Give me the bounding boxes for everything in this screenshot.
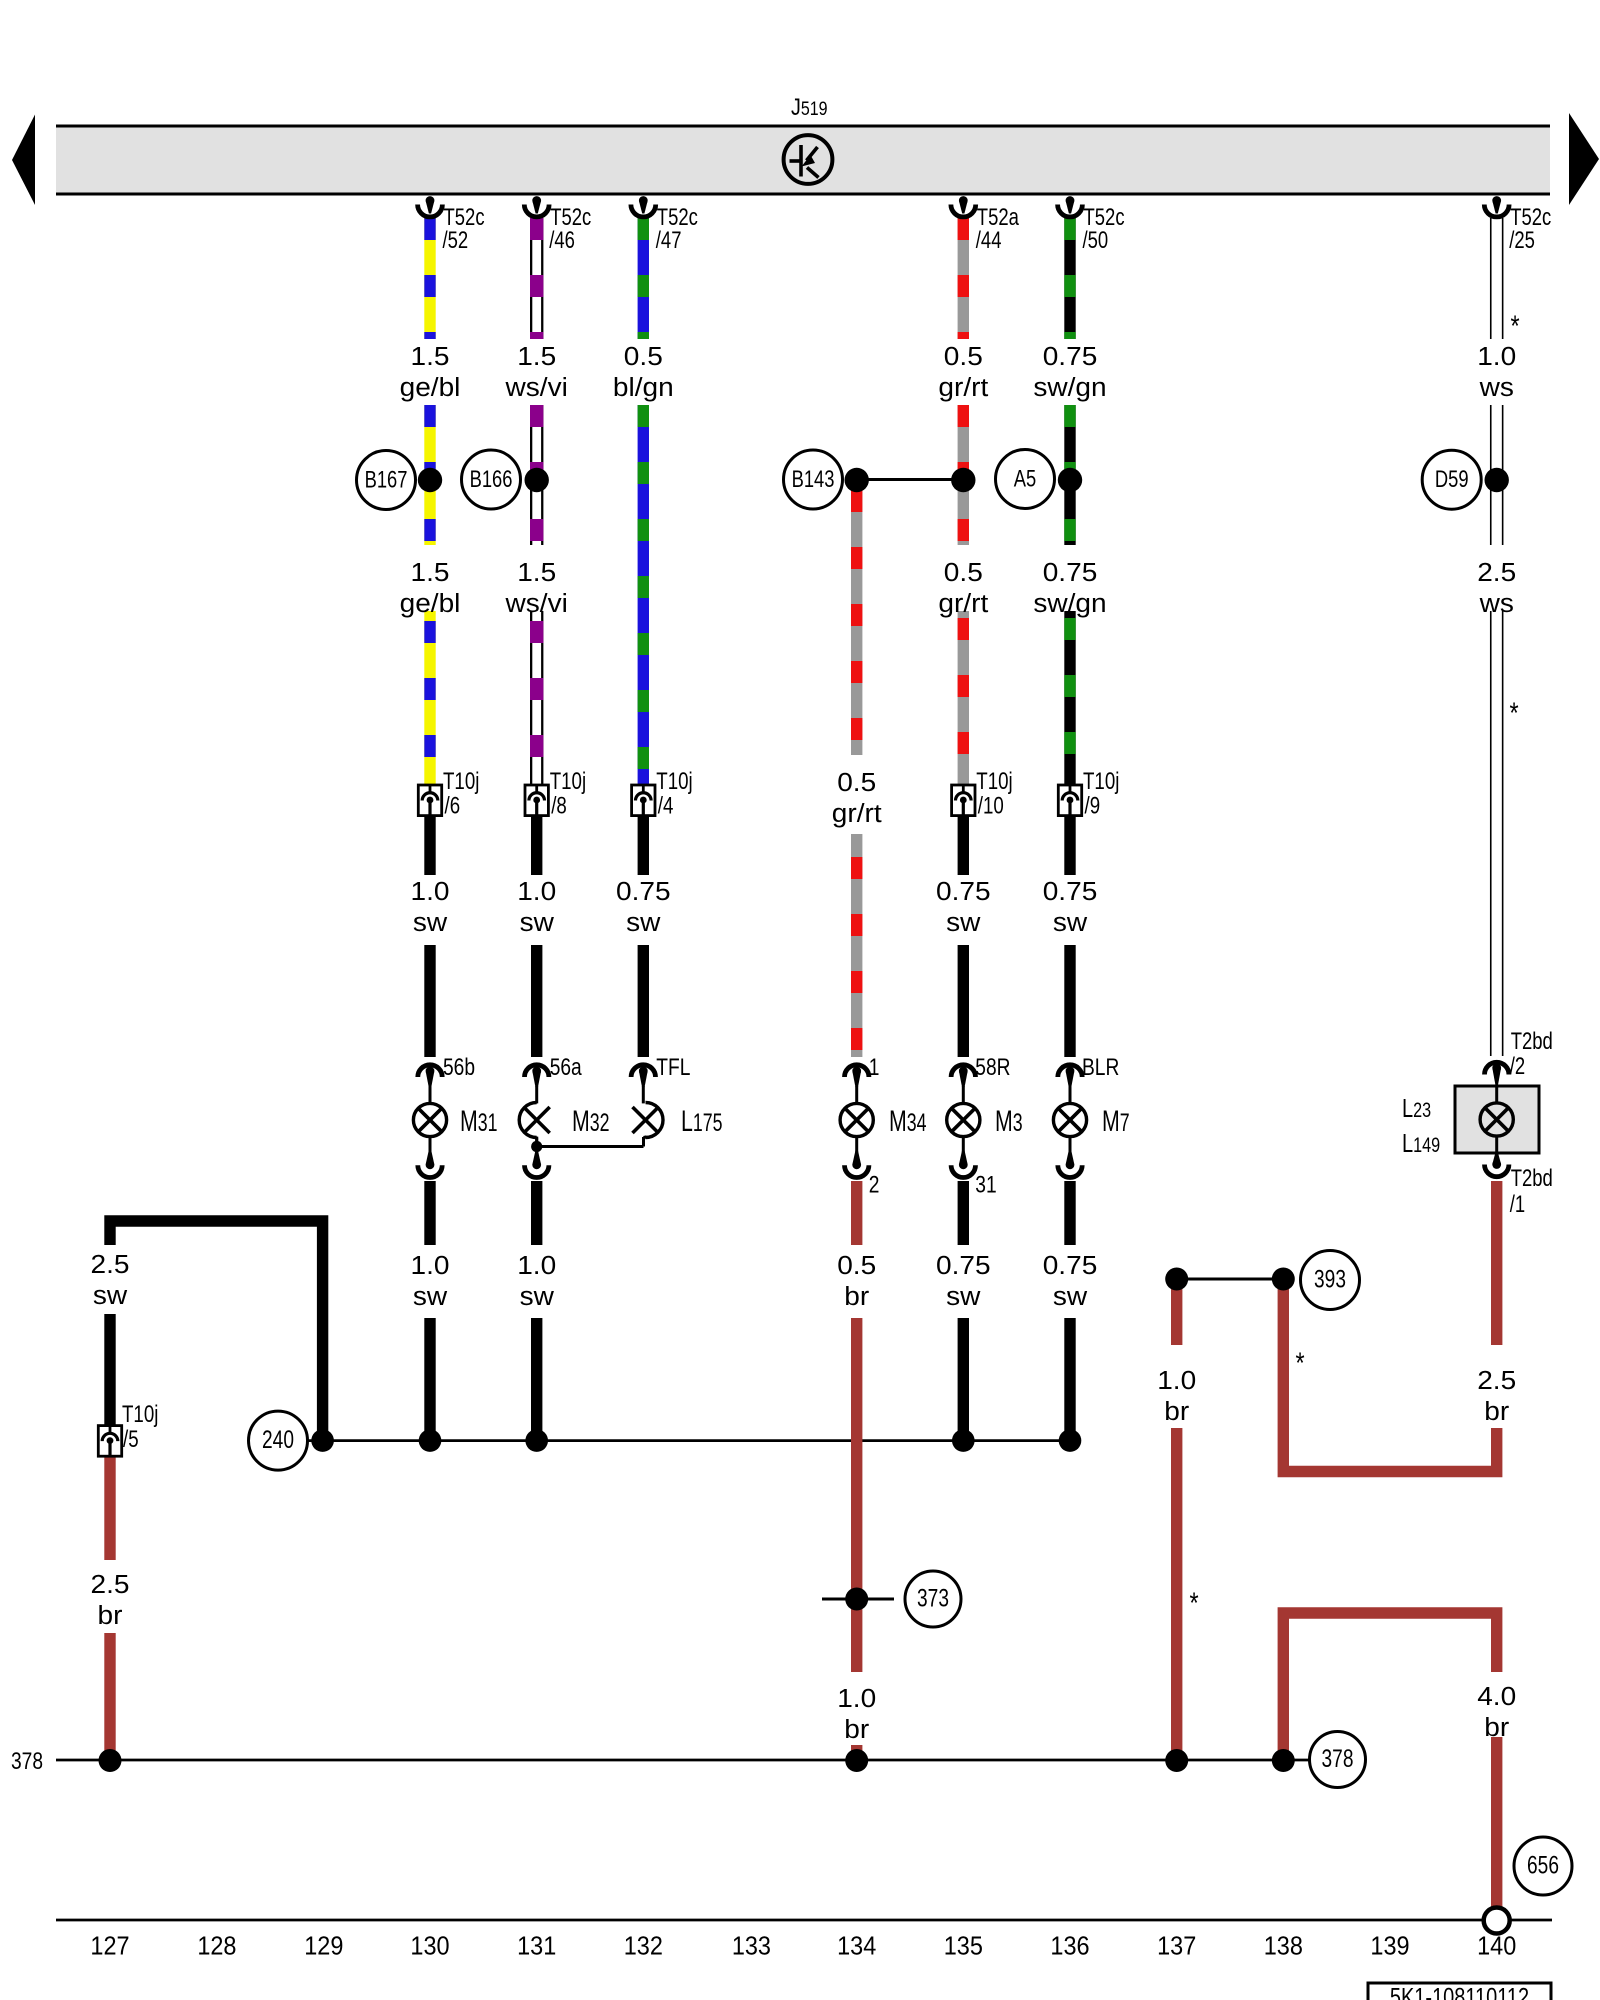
svg-text:sw: sw: [1053, 1282, 1088, 1311]
svg-text:M31: M31: [460, 1103, 497, 1138]
svg-text:/2: /2: [1510, 1053, 1525, 1080]
svg-text:sw: sw: [413, 1282, 448, 1311]
svg-text:138: 138: [1264, 1933, 1303, 1961]
svg-text:/25: /25: [1509, 227, 1535, 254]
svg-text:br: br: [844, 1715, 869, 1744]
svg-text:sw: sw: [520, 1282, 555, 1311]
svg-text:0.75: 0.75: [1043, 558, 1098, 587]
svg-text:2.5: 2.5: [1477, 558, 1516, 587]
svg-text:/10: /10: [978, 792, 1004, 819]
svg-text:M34: M34: [889, 1103, 926, 1138]
svg-text:*: *: [1510, 309, 1520, 342]
svg-text:T10j: T10j: [1083, 768, 1119, 795]
svg-text:4.0: 4.0: [1477, 1682, 1516, 1711]
svg-text:/5: /5: [123, 1426, 139, 1453]
svg-text:sw: sw: [93, 1281, 128, 1310]
svg-text:L149: L149: [1402, 1128, 1440, 1157]
svg-text:gr/rt: gr/rt: [832, 799, 882, 828]
svg-text:sw: sw: [946, 908, 981, 937]
svg-text:T10j: T10j: [122, 1401, 158, 1428]
svg-text:M7: M7: [1102, 1103, 1130, 1138]
svg-text:sw: sw: [413, 908, 448, 937]
svg-text:T2bd: T2bd: [1511, 1165, 1553, 1192]
svg-text:sw: sw: [1053, 908, 1088, 937]
svg-text:T10j: T10j: [443, 768, 479, 795]
svg-text:/50: /50: [1083, 227, 1109, 254]
svg-text:134: 134: [837, 1933, 876, 1961]
svg-text:1.0: 1.0: [517, 877, 556, 906]
svg-text:/9: /9: [1085, 792, 1101, 819]
svg-text:1.5: 1.5: [411, 558, 450, 587]
svg-text:br: br: [98, 1601, 123, 1630]
svg-text:A5: A5: [1014, 465, 1036, 492]
svg-text:M3: M3: [995, 1103, 1023, 1138]
svg-text:373: 373: [917, 1584, 949, 1612]
svg-text:sw: sw: [626, 908, 661, 937]
svg-text:1.0: 1.0: [411, 877, 450, 906]
svg-text:gr/rt: gr/rt: [938, 589, 988, 618]
svg-text:T10j: T10j: [550, 768, 586, 795]
svg-text:2.5: 2.5: [1477, 1366, 1516, 1395]
svg-text:378: 378: [1322, 1745, 1354, 1773]
svg-text:TFL: TFL: [656, 1053, 690, 1081]
svg-text:0.5: 0.5: [624, 342, 663, 371]
svg-text:0.5: 0.5: [944, 342, 983, 371]
svg-text:140: 140: [1477, 1933, 1516, 1961]
svg-text:1.5: 1.5: [517, 342, 556, 371]
svg-text:131: 131: [517, 1933, 556, 1961]
svg-text:393: 393: [1314, 1265, 1346, 1293]
svg-text:ws: ws: [1479, 373, 1514, 402]
svg-text:656: 656: [1527, 1851, 1559, 1879]
svg-text:br: br: [1484, 1713, 1509, 1742]
svg-text:0.5: 0.5: [837, 1251, 876, 1280]
svg-text:BLR: BLR: [1082, 1053, 1119, 1081]
svg-text:127: 127: [90, 1933, 129, 1961]
svg-text:31: 31: [975, 1170, 996, 1198]
svg-text:128: 128: [197, 1933, 236, 1961]
svg-text:/46: /46: [549, 227, 575, 254]
svg-text:B143: B143: [792, 466, 835, 493]
svg-text:5K1-108110112: 5K1-108110112: [1390, 1983, 1529, 2000]
svg-text:gr/rt: gr/rt: [938, 373, 988, 402]
svg-text:2: 2: [869, 1170, 880, 1198]
svg-text:0.5: 0.5: [837, 768, 876, 797]
svg-text:133: 133: [732, 1933, 771, 1961]
svg-text:/8: /8: [551, 792, 567, 819]
svg-text:58R: 58R: [975, 1053, 1010, 1081]
svg-text:137: 137: [1157, 1933, 1196, 1961]
svg-text:/4: /4: [658, 792, 674, 819]
svg-text:1.5: 1.5: [411, 342, 450, 371]
svg-text:/47: /47: [656, 227, 682, 254]
svg-text:1.0: 1.0: [837, 1684, 876, 1713]
svg-text:ge/bl: ge/bl: [400, 373, 461, 402]
svg-text:0.5: 0.5: [944, 558, 983, 587]
svg-text:0.75: 0.75: [1043, 1251, 1098, 1280]
svg-text:ws/vi: ws/vi: [504, 589, 567, 618]
svg-text:136: 136: [1050, 1933, 1089, 1961]
svg-text:129: 129: [304, 1933, 343, 1961]
svg-text:139: 139: [1370, 1933, 1409, 1961]
svg-text:0.75: 0.75: [936, 1251, 991, 1280]
svg-text:M32: M32: [572, 1103, 609, 1138]
svg-text:1.0: 1.0: [517, 1251, 556, 1280]
svg-text:1.0: 1.0: [1477, 342, 1516, 371]
svg-text:D59: D59: [1435, 466, 1469, 493]
svg-text:56b: 56b: [443, 1053, 475, 1081]
svg-text:ws/vi: ws/vi: [504, 373, 567, 402]
svg-text:130: 130: [410, 1933, 449, 1961]
svg-text:B167: B167: [365, 466, 408, 493]
svg-text:br: br: [844, 1282, 869, 1311]
svg-text:/52: /52: [443, 227, 469, 254]
svg-text:/6: /6: [445, 792, 461, 819]
svg-text:378: 378: [11, 1747, 43, 1775]
svg-text:sw: sw: [520, 908, 555, 937]
svg-text:240: 240: [262, 1426, 294, 1454]
svg-text:135: 135: [944, 1933, 983, 1961]
svg-text:*: *: [1189, 1586, 1199, 1619]
svg-text:/1: /1: [1510, 1191, 1525, 1218]
svg-text:T2bd: T2bd: [1511, 1028, 1553, 1055]
svg-text:br: br: [1164, 1397, 1189, 1426]
svg-text:sw/gn: sw/gn: [1033, 589, 1106, 618]
svg-text:1.0: 1.0: [1157, 1366, 1196, 1395]
svg-text:T10j: T10j: [976, 768, 1012, 795]
svg-text:2.5: 2.5: [91, 1570, 130, 1599]
svg-text:T10j: T10j: [656, 768, 692, 795]
svg-text:1: 1: [869, 1053, 880, 1081]
svg-text:0.75: 0.75: [1043, 877, 1098, 906]
svg-text:B166: B166: [470, 466, 513, 493]
svg-text:132: 132: [624, 1933, 663, 1961]
svg-text:sw/gn: sw/gn: [1033, 373, 1106, 402]
svg-text:br: br: [1484, 1397, 1509, 1426]
svg-text:J519: J519: [791, 93, 828, 120]
svg-text:L23: L23: [1402, 1093, 1431, 1122]
svg-text:2.5: 2.5: [91, 1250, 130, 1279]
svg-text:L175: L175: [681, 1103, 722, 1138]
svg-text:1.5: 1.5: [517, 558, 556, 587]
svg-text:*: *: [1295, 1346, 1305, 1379]
svg-text:*: *: [1509, 696, 1519, 729]
svg-text:/44: /44: [976, 227, 1002, 254]
svg-text:0.75: 0.75: [616, 877, 671, 906]
svg-text:sw: sw: [946, 1282, 981, 1311]
svg-text:0.75: 0.75: [936, 877, 991, 906]
svg-text:ws: ws: [1479, 589, 1514, 618]
svg-text:1.0: 1.0: [411, 1251, 450, 1280]
svg-text:ge/bl: ge/bl: [400, 589, 461, 618]
svg-text:56a: 56a: [550, 1053, 583, 1081]
svg-text:0.75: 0.75: [1043, 342, 1098, 371]
svg-text:bl/gn: bl/gn: [613, 373, 674, 402]
